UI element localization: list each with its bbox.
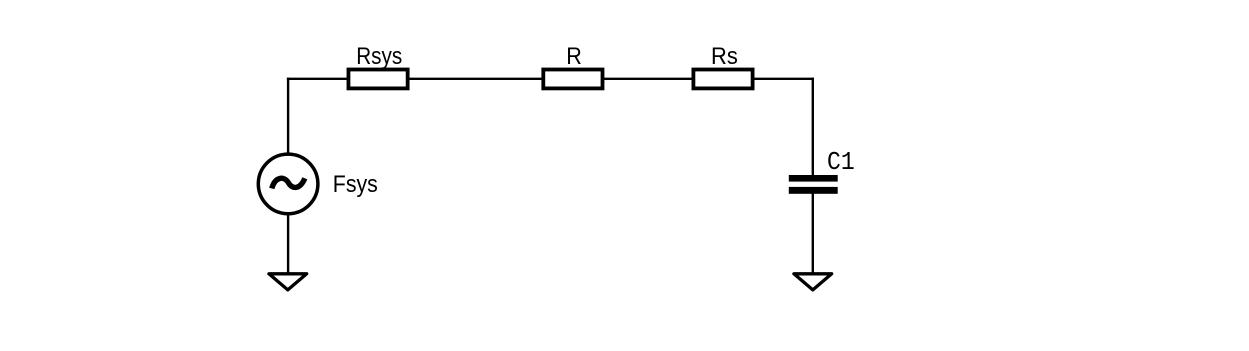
wire: between R and Rs (604, 78, 692, 80)
ground (left) (269, 274, 307, 290)
wire: from Rs to top-right corner node (754, 78, 814, 80)
svg-text:Rs: Rs (711, 43, 738, 70)
svg-text:Fsys: Fsys (333, 171, 378, 198)
resistor Rs (693, 70, 752, 89)
wire: left vertical from corner node down to source Fsys (287, 78, 289, 154)
svg-text:C1: C1 (827, 147, 855, 177)
capacitor C1 (789, 175, 838, 194)
wire: right vertical from corner down to capacitor C1 (812, 78, 814, 176)
wire: from source Fsys to left ground (287, 214, 289, 274)
svg-text:Rsys: Rsys (356, 43, 402, 70)
svg-text:R: R (566, 43, 582, 70)
ground (right) (794, 274, 832, 290)
AC voltage source Fsys (258, 154, 318, 214)
resistor R (543, 70, 602, 89)
resistor Rsys (348, 70, 407, 89)
wire: between Rsys and R (409, 78, 542, 80)
wire: top horizontal from corner node to resistor Rsys (287, 78, 348, 80)
wire: from capacitor C1 to right ground (812, 193, 814, 274)
